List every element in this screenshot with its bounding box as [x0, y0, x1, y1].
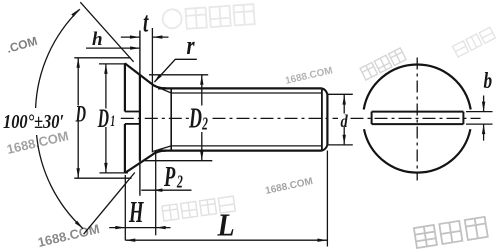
svg-text:b: b — [484, 69, 493, 94]
watermark CJK bottom-center — [162, 196, 235, 221]
watermark CJK top-right faint — [453, 27, 496, 57]
end view slot top line — [372, 111, 464, 113]
chamfer curve bottom — [322, 145, 328, 151]
thread minor line bottom — [171, 145, 322, 147]
dimension t witness right — [151, 28, 153, 152]
shank bottom outline — [158, 150, 322, 152]
watermark CJK big bottom-right — [414, 217, 488, 248]
dimension d line — [343, 94, 345, 113]
end view slot bottom line — [372, 123, 464, 125]
svg-text:L: L — [217, 207, 235, 243]
thread start line — [170, 89, 172, 150]
arrow D bottom — [77, 168, 80, 178]
arrow D1 top — [104, 64, 107, 74]
watermark CJK mid-right — [360, 48, 406, 80]
end face — [326, 94, 328, 144]
watermark 1688.COM mid-left — [5, 128, 70, 157]
svg-text:2: 2 — [201, 115, 208, 134]
label r — [187, 32, 196, 61]
dimension h line — [86, 47, 140, 49]
arrow D1 bottom — [104, 163, 107, 173]
arrow b bottom — [482, 124, 485, 134]
label D1 — [97, 104, 115, 133]
head face — [124, 63, 126, 111]
svg-text:D: D — [75, 102, 86, 127]
end face witness down — [326, 151, 328, 247]
watermark faint center — [284, 65, 334, 87]
label L — [217, 207, 235, 243]
dimension L line — [125, 239, 327, 241]
leader r — [155, 59, 197, 82]
dimension t line — [121, 36, 140, 38]
slot notch bottom — [125, 123, 140, 125]
shank top outline — [158, 87, 322, 89]
angle ray upper — [80, 2, 133, 62]
watermark faint COM mid — [264, 176, 314, 197]
arrow t left — [130, 35, 140, 38]
label b — [484, 69, 493, 94]
svg-text:D: D — [97, 104, 109, 133]
dimension D witness bottom — [74, 177, 131, 179]
end view circle top arc — [364, 64, 471, 109]
arrow d bottom — [343, 135, 346, 145]
svg-text:d: d — [341, 110, 349, 131]
watermark .COM top-left — [5, 34, 39, 56]
arrow D2 bottom — [200, 151, 203, 161]
angle arc upper — [36, 9, 80, 108]
end view circle bottom arc — [364, 129, 470, 172]
label D — [75, 102, 86, 127]
circle vertical centerline — [416, 58, 418, 181]
end view slot right cap — [462, 112, 464, 125]
watermark 1688.COM bottom-left — [36, 221, 101, 249]
dimension D line — [77, 58, 79, 106]
angle arc lower — [37, 135, 83, 229]
dimension d witness top — [328, 93, 353, 95]
dimension D witness top — [74, 57, 131, 59]
dimension D1 witness top — [99, 63, 126, 65]
angle ray lower — [84, 173, 135, 235]
svg-text:r: r — [187, 32, 196, 61]
dimension b witness top — [466, 111, 493, 113]
thread runout taper top — [153, 85, 171, 93]
arrow t right — [152, 35, 162, 38]
arrow b top — [482, 102, 485, 112]
watermark CJK top-center — [162, 4, 255, 31]
dimension D2 line — [201, 75, 203, 106]
dimension H line — [109, 227, 170, 229]
arrow r — [154, 74, 162, 83]
svg-text:100°±30′: 100°±30′ — [3, 111, 64, 133]
label H — [128, 194, 144, 229]
label 100 degrees — [3, 111, 64, 133]
label t — [143, 8, 149, 38]
dimension b line — [483, 96, 485, 112]
dimension H witness right — [155, 151, 157, 236]
arrow arc lower — [75, 221, 83, 229]
main axis centerline — [121, 117, 481, 119]
arrow H right — [156, 226, 166, 229]
svg-text:P: P — [163, 162, 175, 193]
thread runout taper bottom — [153, 146, 171, 152]
label h — [92, 29, 103, 50]
face witness down for H and L — [124, 175, 126, 240]
chamfer curve top — [322, 88, 328, 94]
dimension b witness bottom — [466, 123, 493, 125]
slot notch top — [125, 111, 140, 113]
cone edge top — [125, 63, 166, 88]
svg-text:h: h — [92, 29, 103, 50]
arrow L left — [125, 239, 135, 242]
dimension D1 line — [105, 64, 107, 109]
dimension d witness bottom — [328, 144, 353, 146]
label d — [341, 110, 349, 131]
svg-text:2: 2 — [176, 172, 183, 192]
dimension P2 line — [141, 189, 191, 191]
thread minor line top — [171, 92, 322, 94]
svg-text:H: H — [128, 194, 144, 229]
arrow h — [130, 46, 140, 49]
label P2 — [163, 162, 183, 193]
arrow d top — [343, 95, 346, 105]
arrow arc upper — [71, 9, 80, 17]
svg-text:D: D — [188, 104, 202, 135]
svg-text:1: 1 — [110, 112, 115, 130]
dimension D1 witness bottom — [100, 172, 128, 174]
arrow D top — [77, 58, 80, 68]
arrow H left — [115, 226, 125, 229]
dimension D2 witness top — [149, 74, 208, 76]
slot bottom line — [139, 31, 141, 196]
arrow L right — [317, 239, 327, 242]
end view slot left cap — [371, 112, 373, 125]
label D2 — [188, 104, 208, 135]
cone edge bottom — [125, 151, 166, 173]
dimension D2 witness bottom — [143, 160, 212, 162]
chamfer boundary — [321, 89, 323, 150]
arrow P2 — [152, 189, 162, 192]
arrow D2 top — [200, 75, 203, 85]
